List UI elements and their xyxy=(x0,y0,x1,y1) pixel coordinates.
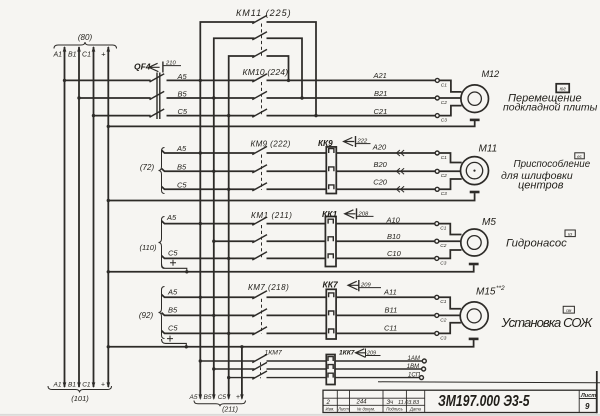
svg-text:**2: **2 xyxy=(496,285,505,292)
terminal C1 of M12 xyxy=(435,78,447,88)
terminal C3 of M11 xyxy=(435,187,447,197)
svg-text:QF4: QF4 xyxy=(134,62,151,72)
brace (92) xyxy=(159,287,165,339)
svg-text:(110): (110) xyxy=(140,243,157,252)
wire B5 row2 xyxy=(162,169,436,172)
sheet flag 208 xyxy=(345,208,374,219)
title column headers xyxy=(326,407,422,412)
svg-text:1ВМ: 1ВМ xyxy=(407,364,419,370)
chevrons C20 xyxy=(397,186,405,192)
node A5 feeder row4 xyxy=(199,296,202,299)
terminal 1BM xyxy=(422,367,426,371)
wire C5 row2 xyxy=(162,187,436,190)
motor M12 xyxy=(461,69,500,113)
svg-text:С5: С5 xyxy=(218,394,227,401)
svg-text:А1: А1 xyxy=(53,382,62,389)
brace (72) xyxy=(159,148,165,194)
svg-text:1КМ7: 1КМ7 xyxy=(265,350,282,357)
svg-text:С3: С3 xyxy=(440,335,446,341)
ground bar M5 xyxy=(469,263,479,265)
brace (110) xyxy=(159,217,165,269)
wires terminals to motor M11 xyxy=(439,153,462,189)
svg-text:Подпись: Подпись xyxy=(386,407,403,412)
ground tap symbol row3 xyxy=(162,260,189,274)
svg-text:М11: М11 xyxy=(479,144,498,155)
frame line bottom right xyxy=(378,382,600,383)
svg-text:С1: С1 xyxy=(82,52,91,59)
svg-text:КМ7 (218): КМ7 (218) xyxy=(248,283,289,292)
svg-text:С5: С5 xyxy=(168,248,178,257)
thermal relay KK7 xyxy=(323,279,339,339)
node + bus M11 gnd junction xyxy=(107,199,110,202)
motor M5 xyxy=(461,217,497,256)
svg-text:9: 9 xyxy=(585,402,590,411)
svg-text:(72): (72) xyxy=(140,163,155,172)
svg-text:С5: С5 xyxy=(178,107,188,116)
breaker QF4 xyxy=(134,62,164,119)
motor M11 xyxy=(461,144,498,185)
svg-text:С5: С5 xyxy=(177,180,187,189)
terminal C2 of M15 xyxy=(435,313,447,323)
wire 1CP xyxy=(229,377,420,379)
svg-text:С2: С2 xyxy=(440,243,446,249)
bus + (PE) xyxy=(101,46,110,389)
svg-text:+: + xyxy=(101,382,105,389)
node C5 riser junction xyxy=(227,114,230,117)
svg-text:11.03.83: 11.03.83 xyxy=(398,400,420,406)
wire M15 ground to + bus xyxy=(108,340,473,347)
wire 1BM xyxy=(214,368,422,370)
svg-text:Гидронасос: Гидронасос xyxy=(506,238,567,250)
svg-text:209: 209 xyxy=(360,283,371,289)
thermal relay KK9 xyxy=(318,139,336,194)
wire C5 row3 xyxy=(162,256,435,259)
terminal 1CP xyxy=(420,376,424,380)
svg-text:(80): (80) xyxy=(78,33,93,42)
brace (211) xyxy=(194,401,246,407)
svg-text:С1: С1 xyxy=(441,82,447,88)
contactor KM10 xyxy=(243,67,289,117)
svg-text:С1: С1 xyxy=(82,382,91,389)
node + bus M5 gnd junction xyxy=(107,270,110,273)
svg-text:В11: В11 xyxy=(385,306,398,315)
svg-text:(92): (92) xyxy=(139,311,154,320)
svg-text:№ докум.: № докум. xyxy=(357,407,375,412)
contactor KM11 xyxy=(236,8,292,58)
svg-text:подкладной плиты: подкладной плиты xyxy=(503,102,598,114)
svg-text:М15: М15 xyxy=(476,287,496,298)
svg-text:А5: А5 xyxy=(177,72,188,81)
svg-text:Лист: Лист xyxy=(337,407,349,412)
node A21 loop junction xyxy=(287,79,290,82)
svg-text:С5: С5 xyxy=(168,323,178,332)
svg-text:Зч: Зч xyxy=(387,400,394,406)
svg-text:С1: С1 xyxy=(441,155,447,161)
svg-text:В10: В10 xyxy=(387,232,401,241)
svg-text:(101): (101) xyxy=(71,394,89,403)
wire A5 row2 xyxy=(162,150,436,153)
wire M11 ground to + bus xyxy=(108,193,474,200)
svg-text:М5: М5 xyxy=(482,217,496,228)
zone box M11 xyxy=(575,153,585,159)
svg-text:С20: С20 xyxy=(373,178,388,187)
node B1-QF4 junction xyxy=(77,96,80,99)
wires terminals to motor M5 xyxy=(439,224,462,259)
node C21 loop junction xyxy=(314,114,317,117)
svg-text:Лист: Лист xyxy=(580,393,596,399)
svg-text:С11: С11 xyxy=(384,324,397,333)
terminal C2 of M5 xyxy=(435,239,447,249)
zone box M5 xyxy=(565,230,575,237)
sheet flag 210 for QF4 xyxy=(149,61,181,73)
svg-text:КК9: КК9 xyxy=(318,139,333,148)
svg-text:С3: С3 xyxy=(441,118,447,124)
wire C5 row4 xyxy=(162,331,435,334)
svg-text:А1: А1 xyxy=(52,52,62,59)
svg-text:С2: С2 xyxy=(441,173,447,179)
bus B1 xyxy=(68,46,81,389)
node C5 feeder row2 xyxy=(227,188,230,191)
svg-text:208: 208 xyxy=(358,211,369,217)
contactor KM7 xyxy=(248,283,289,335)
svg-text:С10: С10 xyxy=(387,249,402,258)
frame line right edge xyxy=(596,371,598,413)
svg-text:А10: А10 xyxy=(386,215,401,224)
terminal 1AM xyxy=(422,359,426,363)
contactor KM1 xyxy=(251,211,293,260)
contactor 1KM7 xyxy=(252,350,282,380)
wire A5 row4 xyxy=(162,295,435,298)
svg-text:В5: В5 xyxy=(168,305,178,314)
zone box M12 xyxy=(556,84,569,93)
wire B5/B21 xyxy=(167,97,436,99)
svg-text:(211): (211) xyxy=(222,407,238,414)
node B5 riser junction xyxy=(212,96,215,99)
svg-text:А21: А21 xyxy=(373,71,387,80)
svg-text:КМ11 (225): КМ11 (225) xyxy=(236,8,292,18)
ground bar M11 xyxy=(470,191,480,193)
svg-text:ЗМ197.000 Э3-5: ЗМ197.000 Э3-5 xyxy=(438,392,530,410)
svg-text:209: 209 xyxy=(366,351,376,357)
svg-text:В1: В1 xyxy=(68,382,76,389)
svg-text:В21: В21 xyxy=(374,89,387,98)
wire riser C5 up xyxy=(229,56,289,116)
svg-text:+: + xyxy=(101,50,106,59)
svg-text:В1: В1 xyxy=(68,52,77,59)
svg-text:С1: С1 xyxy=(440,225,446,231)
svg-text:+: + xyxy=(236,394,240,401)
svg-text:Дата: Дата xyxy=(409,407,422,412)
svg-text:Приспособление: Приспособление xyxy=(514,159,591,170)
wire A5/A21 xyxy=(167,79,436,81)
sheet flag 209 xyxy=(348,280,381,291)
ground bar M12 xyxy=(470,119,480,121)
svg-text:В5: В5 xyxy=(178,90,188,99)
node C1-QF4 junction xyxy=(92,114,95,117)
sheet flag 222 xyxy=(344,136,371,147)
svg-text:1КК7: 1КК7 xyxy=(339,350,355,357)
node B21 loop junction xyxy=(300,96,303,99)
node A5 feeder row3 xyxy=(199,222,202,225)
wire A5 row3 xyxy=(162,221,435,224)
wire C5/C21 xyxy=(167,115,436,117)
feeder bottom arrows xyxy=(199,394,244,400)
svg-text:А5: А5 xyxy=(189,394,198,401)
svg-text:244: 244 xyxy=(356,400,368,406)
node C5 feeder row3 xyxy=(227,257,230,260)
wires terminals to motor M15 xyxy=(439,297,461,333)
bus A1 xyxy=(52,46,66,389)
thermal relay KK1 xyxy=(322,209,337,267)
svg-text:С3: С3 xyxy=(440,260,446,266)
wire B5 row4 xyxy=(162,313,435,316)
feeder A5 vertical xyxy=(199,80,201,398)
chevrons B20 xyxy=(397,168,405,174)
svg-text:222: 222 xyxy=(357,139,368,145)
svg-text:КМ10 (224): КМ10 (224) xyxy=(243,67,289,77)
svg-text:А5: А5 xyxy=(166,213,177,222)
terminal C3 of M12 xyxy=(435,114,447,124)
wire B1 to QF4 xyxy=(79,97,151,99)
svg-text:В5: В5 xyxy=(177,162,187,171)
terminal C1 of M15 xyxy=(435,295,447,305)
svg-text:С2: С2 xyxy=(440,317,446,323)
brace (80) xyxy=(54,42,117,49)
svg-text:А11: А11 xyxy=(383,288,397,297)
wire C1 to QF4 xyxy=(94,115,151,117)
terminal C3 of M15 xyxy=(435,331,447,341)
wire 1AM xyxy=(200,360,422,362)
svg-text:КК1: КК1 xyxy=(322,209,337,219)
svg-text:Изм.: Изм. xyxy=(326,407,335,412)
svg-text:Установка СОЖ: Установка СОЖ xyxy=(501,315,594,330)
svg-text:2: 2 xyxy=(326,400,331,406)
bottom edge shading xyxy=(0,414,600,416)
wire riser B5 up xyxy=(214,38,302,98)
sheet flag 209 row5 xyxy=(356,349,381,358)
node C5 feeder row4 xyxy=(227,332,230,335)
title block columns xyxy=(323,390,597,412)
node B5 feeder row4 xyxy=(212,314,215,317)
node + bus M15 gnd junction xyxy=(107,345,110,348)
wires terminals to motor M12 xyxy=(439,80,461,115)
feeder + vertical xyxy=(241,347,243,399)
node A5 feeder row5 xyxy=(199,359,202,362)
brace (101) xyxy=(48,386,112,393)
terminal C2 of M12 xyxy=(435,96,447,106)
motor M15 xyxy=(460,285,505,330)
bus C1 xyxy=(82,46,95,389)
thermal relay 1KK7 xyxy=(326,350,354,385)
svg-text:из: из xyxy=(568,231,572,236)
wire M5 ground to + bus xyxy=(108,265,473,272)
svg-text:1АМ: 1АМ xyxy=(408,356,420,362)
title block outline xyxy=(323,390,597,412)
svg-text:С2: С2 xyxy=(441,100,447,106)
wire A1 to QF4 xyxy=(65,79,151,81)
chevrons A20 xyxy=(397,150,405,156)
node A5 feeder row2 xyxy=(199,151,202,154)
svg-text:В20: В20 xyxy=(374,160,388,169)
svg-text:КМ9 (222): КМ9 (222) xyxy=(251,140,291,149)
svg-text:1СП: 1СП xyxy=(408,373,421,379)
ground bar M15 xyxy=(469,338,479,340)
svg-text:КК7: КК7 xyxy=(323,279,339,289)
terminal C1 of M5 xyxy=(435,222,447,232)
node B5 feeder row2 xyxy=(212,170,215,173)
svg-text:210: 210 xyxy=(165,61,176,67)
svg-text:А5: А5 xyxy=(176,144,187,153)
node C5 feeder row5 xyxy=(227,376,230,379)
svg-text:В5: В5 xyxy=(204,394,212,401)
svg-text:С1: С1 xyxy=(440,299,446,305)
terminal C1 of M11 xyxy=(435,151,447,161)
feeder B5 vertical xyxy=(213,98,215,399)
node A5 riser junction xyxy=(199,79,202,82)
node A1-QF4 junction xyxy=(63,79,66,82)
svg-text:КМ1 (211): КМ1 (211) xyxy=(251,211,293,220)
wire riser A5 up xyxy=(200,22,316,116)
svg-text:М12: М12 xyxy=(482,69,501,79)
svg-text:А5: А5 xyxy=(167,287,178,296)
contactor KM9 xyxy=(251,140,291,191)
wire B row3 xyxy=(214,240,435,242)
svg-text:пм: пм xyxy=(566,308,571,313)
node B5 feeder row3 xyxy=(212,240,215,243)
wire M12 ground to + bus xyxy=(108,121,474,126)
node B5 feeder row5 xyxy=(212,367,215,370)
ground tap symbol row4 xyxy=(162,336,189,349)
svg-text:С21: С21 xyxy=(374,107,388,116)
feeder C5 vertical xyxy=(228,116,230,399)
terminal C3 of M5 xyxy=(435,256,447,266)
svg-text:центров: центров xyxy=(518,180,564,192)
terminal C2 of M11 xyxy=(435,169,447,179)
svg-text:С3: С3 xyxy=(441,191,447,197)
zone box M15 xyxy=(563,306,574,313)
svg-text:А20: А20 xyxy=(372,143,387,152)
node + feeder junction xyxy=(240,345,243,348)
node + bus M12 gnd junction xyxy=(107,125,110,128)
